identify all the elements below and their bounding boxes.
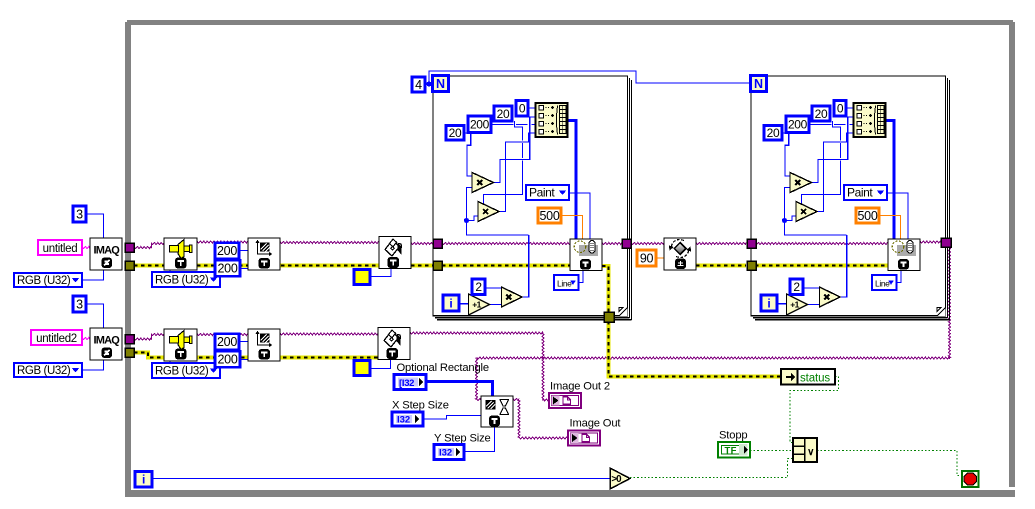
wire: multiply2 output to build array row4 xyxy=(499,133,536,212)
cast/color VI (chain 2) xyxy=(164,329,197,361)
svg-text:200: 200 xyxy=(217,335,237,349)
constant 500 (loop2) xyxy=(856,208,879,223)
wire: 500 constant to overlay VI (orange) xyxy=(879,216,901,240)
wire: image wire extract VI to Image Out indicator xyxy=(513,399,519,401)
200 constant lower (chain 2) xyxy=(215,351,240,367)
svg-text:RGB (U32): RGB (U32) xyxy=(155,366,209,378)
increment function +1 (loop1) xyxy=(469,294,490,315)
wire: 200 constant to build array row3 xyxy=(809,124,831,126)
for loop frame 1 xyxy=(433,76,628,316)
IMAQ Create VI (untitled) xyxy=(90,238,122,270)
wire: i terminal to +1 xyxy=(777,303,787,305)
yellow color box constant (chain 1) xyxy=(354,270,370,285)
svg-text:2: 2 xyxy=(793,280,800,294)
wire: multiply2 output to build array row4 xyxy=(817,133,854,212)
constant 500 (loop1) xyxy=(538,208,561,223)
svg-text:I32: I32 xyxy=(439,448,452,459)
wire: multiply1 output to build array row2 xyxy=(494,117,536,183)
enum RGB (U32) mid (chain 1) xyxy=(152,272,220,287)
svg-text:2: 2 xyxy=(475,280,482,294)
wire: RGB (U32) enum to cast VI 2 xyxy=(169,360,171,362)
svg-text:Line: Line xyxy=(875,279,890,289)
svg-text:+1: +1 xyxy=(790,300,799,310)
wire: 2 constant to multiply xyxy=(803,287,821,289)
wire: 200 constant to build array row3 xyxy=(491,124,513,126)
for loop dog-ear corner xyxy=(619,307,628,316)
wire: iteration scaling chain (i+1)*2 feed to multiplies via junction xyxy=(785,188,791,219)
wire: yellow color box to fill VI 2 xyxy=(370,360,391,369)
svg-text:Paint: Paint xyxy=(529,186,555,200)
constant 3 (untitled2) xyxy=(73,296,86,312)
constant 20 upper (loop1) xyxy=(494,106,512,121)
wire: constant 4 to loop1 N terminal and across to loop2 N xyxy=(425,83,433,85)
wire: build array output to overlay VI (array wire) xyxy=(886,121,895,240)
resample VI (chain 1) xyxy=(248,238,280,270)
N count terminal xyxy=(433,76,449,92)
200 constant lower (chain 1) xyxy=(215,260,240,276)
svg-text:200: 200 xyxy=(788,118,808,132)
svg-text:X Step Size: X Step Size xyxy=(392,400,449,412)
string constant untitled2 xyxy=(31,330,82,345)
svg-text:Optional Rectangle: Optional Rectangle xyxy=(397,362,489,374)
compound arithmetic OR node xyxy=(793,438,817,462)
IMAQ Create VI (untitled2) xyxy=(90,328,122,360)
multiply function upper (loop1) xyxy=(472,173,494,193)
wire: Paint enum to overlay VI xyxy=(887,193,908,239)
tunnel: loop1 left error tunnel xyxy=(433,261,442,270)
wire: image wire overlay2 to loop2 right tunnel xyxy=(920,241,941,243)
constant 20 left (loop1) xyxy=(446,126,464,141)
svg-text:untitled2: untitled2 xyxy=(36,333,77,345)
wire: +1 to multiply xyxy=(490,304,502,306)
wire: string wire untitled2 to IMAQ Create 2 xyxy=(82,338,90,340)
tunnel: error out of IMAQ Create 2 on while border xyxy=(125,348,134,357)
boolean control Stopp TF xyxy=(718,442,750,458)
overlay oval VI (loop2) xyxy=(888,239,920,271)
wire: greater-than-zero result to compound OR xyxy=(630,459,793,478)
tunnel: image out of IMAQ Create 2 on while border xyxy=(125,335,134,344)
wire: image wire loop1 to rotate VI xyxy=(631,243,664,245)
control I32 X Step Size xyxy=(392,412,423,426)
indicator Image Out xyxy=(568,431,600,446)
svg-text:200: 200 xyxy=(217,244,237,258)
wire: while loop i terminal to greater-than-zero xyxy=(152,478,610,480)
Paint enum constant (loop1) xyxy=(526,185,569,200)
wire: RGB (U32) enum to IMAQ Create 2 xyxy=(82,360,104,370)
enum RGB (U32) (untitled) xyxy=(14,273,82,287)
wire: +1 to multiply xyxy=(808,304,820,306)
overlay oval VI (loop1) xyxy=(570,239,602,271)
Paint enum constant (loop2) xyxy=(844,185,887,200)
svg-text:IMAQ: IMAQ xyxy=(94,245,121,257)
tunnel: error out of IMAQ Create 1 on while border xyxy=(125,261,134,270)
wire: 2 constant to multiply xyxy=(485,287,503,289)
svg-text:i: i xyxy=(449,297,452,311)
tunnel: loop2 left error tunnel xyxy=(747,261,756,270)
wire: 20 constant to multiply top input (loop2) xyxy=(782,132,789,134)
node: junction dot xyxy=(464,218,469,223)
svg-text:20: 20 xyxy=(449,126,462,140)
svg-text:0: 0 xyxy=(519,102,526,116)
svg-text:0: 0 xyxy=(837,102,844,116)
svg-text:N: N xyxy=(436,77,445,91)
wire: 0 constant to build array row1 xyxy=(846,107,854,109)
wire: Optional Rectangle array control to extract VI xyxy=(426,382,493,397)
wire: image wire chain2 fill output to Image Out 2 indicator xyxy=(410,332,543,334)
tunnel: loop2 right image tunnel xyxy=(941,238,951,247)
svg-text:20: 20 xyxy=(497,107,510,121)
increment function +1 (loop2) xyxy=(787,294,808,315)
constant 2 (loop2) xyxy=(790,279,803,295)
wire: image wire chain1 fill to loop1 tunnel xyxy=(411,243,433,245)
svg-text:i: i xyxy=(142,473,145,487)
resample VI (chain 2) xyxy=(248,329,280,361)
wire: error wire chain 2 xyxy=(134,353,378,358)
build array node (loop2) xyxy=(854,103,886,137)
svg-text:RGB (U32): RGB (U32) xyxy=(155,275,209,287)
constant 0 (loop1) xyxy=(516,101,528,117)
tunnel: loop1 left image tunnel xyxy=(433,239,442,248)
200 constant upper (chain 1) xyxy=(215,243,239,259)
svg-text:20: 20 xyxy=(767,126,780,140)
indicator Image Out 2 xyxy=(549,393,581,408)
string constant untitled xyxy=(38,240,82,255)
wire: Paint enum to overlay VI xyxy=(569,193,590,239)
constant 2 (loop1) xyxy=(472,279,485,295)
tunnel: loop1 right image tunnel xyxy=(622,239,631,248)
svg-text:Image Out 2: Image Out 2 xyxy=(550,381,610,393)
Line enum constant (loop2) xyxy=(872,275,897,290)
svg-text:IMAQ: IMAQ xyxy=(94,335,121,347)
constant 0 (loop2) xyxy=(834,101,846,117)
wire: constant 3 to IMAQ Create 2 xyxy=(86,304,104,328)
wire: compound OR to loop condition terminal xyxy=(817,451,962,476)
svg-text:4: 4 xyxy=(415,78,422,92)
node: junction dot xyxy=(782,218,787,223)
enum RGB (U32) (untitled2) xyxy=(14,363,82,377)
wire: image wire rotate to loop2 tunnel xyxy=(696,243,746,245)
wire: string wire untitled to IMAQ Create 1 xyxy=(82,247,90,249)
svg-text:500: 500 xyxy=(858,209,878,223)
200 constant upper (chain 2) xyxy=(215,334,239,350)
wire: Line enum to overlay VI xyxy=(897,271,902,283)
wire: 20 constant to lower multiply top input xyxy=(515,121,523,141)
svg-text:Image Out: Image Out xyxy=(570,418,622,430)
svg-text:20: 20 xyxy=(815,107,828,121)
wire: RGB (U32) enum to IMAQ Create 1 xyxy=(82,270,104,280)
wire: iteration scaling chain (i+1)*2 feed to multiplies via junction xyxy=(467,188,473,219)
wire: error wire overlay1 down through loop1 bottom tunnel to status unbundler xyxy=(602,266,609,312)
svg-text:RGB (U32): RGB (U32) xyxy=(17,275,71,287)
multiply function lower (loop1) xyxy=(478,202,499,222)
wire: constant 3 to IMAQ Create 1 xyxy=(86,214,104,238)
multiply function bottom (loop2) xyxy=(820,287,841,307)
wire: image wire overlay1 to loop1 right tunnel xyxy=(602,243,622,245)
iteration terminal i (loop1) xyxy=(443,295,459,311)
svg-text:i: i xyxy=(767,297,770,311)
wire: error wire inside loop1 to overlay VI xyxy=(442,264,570,268)
wire: image wire chain 2 from IMAQ tunnel to fill VI 2 xyxy=(134,338,151,340)
svg-text:Paint: Paint xyxy=(847,186,873,200)
wire: 20 constant to multiply top input (loop1) xyxy=(464,132,471,134)
cast/color VI (chain 1) xyxy=(164,238,197,270)
wire: multiply1 output to build array row2 xyxy=(812,117,854,183)
enum RGB (U32) mid (chain 2) xyxy=(152,363,220,378)
wire: Y Step Size control to extract VI xyxy=(464,427,495,452)
svg-text:I32: I32 xyxy=(397,415,410,426)
constant 200 (loop1) xyxy=(468,116,491,133)
constant 20 upper (loop2) xyxy=(812,106,830,121)
svg-text:3: 3 xyxy=(76,297,83,311)
for loop frame 2 xyxy=(751,76,946,316)
svg-text:RGB (U32): RGB (U32) xyxy=(17,365,71,377)
svg-text:200: 200 xyxy=(218,262,238,276)
tunnel: image out of IMAQ Create 1 on while border xyxy=(125,243,134,252)
svg-text:Stopp: Stopp xyxy=(719,430,748,442)
wire: 200 constants to resample VI 2 xyxy=(239,341,248,343)
wire: build array output to overlay VI (array wire) xyxy=(568,121,577,240)
wire: image wire inside loop1 to overlay VI xyxy=(442,243,570,245)
wire: error wire inside loop2 to overlay VI 2 xyxy=(755,264,888,268)
fill image VI (chain 2) xyxy=(378,328,410,360)
rotate VI xyxy=(664,238,696,270)
wire: Line enum to overlay VI xyxy=(579,271,584,283)
wire: image wire loop2 output down and left to extract VI xyxy=(949,247,951,358)
fill image VI (chain 1) xyxy=(379,237,411,269)
Line enum constant (loop1) xyxy=(554,275,579,290)
svg-text:200: 200 xyxy=(470,118,490,132)
while loop condition terminal stop xyxy=(962,471,979,487)
greater than zero function xyxy=(610,468,630,489)
constant 200 (loop2) xyxy=(786,116,809,133)
tunnel: loop1 bottom error tunnel xyxy=(604,312,614,322)
constant 4 xyxy=(412,77,425,92)
svg-text:+1: +1 xyxy=(472,300,481,310)
svg-text:status: status xyxy=(800,373,830,385)
wire: X Step Size control to extract VI xyxy=(423,415,481,419)
wire: 500 constant to overlay VI (orange) xyxy=(561,216,583,240)
wire: error wire rotate VI to loop2 tunnel xyxy=(696,264,746,268)
N count terminal xyxy=(751,76,767,92)
svg-text:[I32: [I32 xyxy=(399,378,414,389)
wire: i terminal to +1 xyxy=(459,303,469,305)
constant 20 left (loop2) xyxy=(764,126,782,141)
svg-text:90: 90 xyxy=(640,251,654,265)
svg-text:>0: >0 xyxy=(611,474,622,485)
tunnel: loop2 left image tunnel xyxy=(747,239,756,248)
array control I32 Optional Rectangle xyxy=(394,375,426,390)
iteration terminal i (loop2) xyxy=(761,295,777,311)
for loop dog-ear corner xyxy=(937,307,946,316)
wire: 20 constant to lower multiply top input xyxy=(833,121,841,141)
svg-text:500: 500 xyxy=(540,209,560,223)
while loop iteration terminal i xyxy=(135,472,152,488)
svg-text:∨: ∨ xyxy=(807,447,814,458)
build array node (loop1) xyxy=(536,103,568,137)
svg-text:3: 3 xyxy=(76,207,83,221)
wire: RGB (U32) enum to cast VI 1 xyxy=(169,270,171,272)
wire: image wire inside loop2 to overlay VI 2 xyxy=(755,243,888,245)
extract VI xyxy=(481,396,513,427)
wire: 0 constant to build array row1 xyxy=(528,107,536,109)
wire: status boolean to compound OR xyxy=(790,377,839,443)
constant 3 (untitled) xyxy=(73,206,86,222)
svg-text:200: 200 xyxy=(218,353,238,367)
svg-text:N: N xyxy=(754,77,763,91)
unbundle by name status node xyxy=(781,369,835,385)
multiply function bottom (loop1) xyxy=(502,287,523,307)
wire: 200 constants to resample VI 1 xyxy=(239,250,248,252)
control I32 Y Step Size xyxy=(434,445,464,460)
constant 90 xyxy=(637,250,656,266)
multiply function lower (loop2) xyxy=(796,202,817,222)
wire: yellow color box to fill VI 1 xyxy=(370,268,391,277)
svg-text:Y Step Size: Y Step Size xyxy=(434,433,491,445)
wire: Stopp boolean to compound OR xyxy=(750,450,793,452)
svg-text:Line: Line xyxy=(557,279,572,289)
wire: error wire chain 1 xyxy=(134,264,379,268)
wire: image wire chain 1 from IMAQ tunnel to fill VI xyxy=(134,247,151,249)
svg-text:TF: TF xyxy=(725,445,737,456)
yellow color box constant (chain 2) xyxy=(354,361,370,376)
svg-text:untitled: untitled xyxy=(43,243,78,255)
multiply function upper (loop2) xyxy=(790,173,812,193)
